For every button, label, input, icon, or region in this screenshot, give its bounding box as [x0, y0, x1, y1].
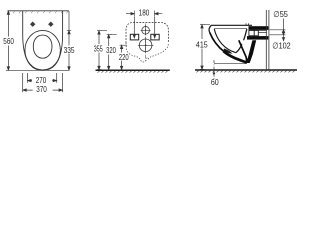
rear body dotted lower outline	[126, 43, 168, 62]
dim 270 extension lines	[28, 73, 57, 83]
wall double line	[266, 10, 269, 69]
dim 180 line	[126, 11, 162, 17]
dim 335 line	[67, 11, 71, 70]
svg-text:∅55: ∅55	[273, 9, 288, 19]
mounting hole rect right	[151, 34, 159, 40]
svg-text:335: 335	[64, 45, 75, 55]
dim 60 arrow	[213, 71, 216, 75]
dim 370 line with arrows	[23, 89, 63, 91]
dim 415 line	[200, 25, 210, 70]
outlet V notch white	[241, 40, 252, 56]
front edge extension line	[6, 69, 69, 71]
inlet pipe bar	[249, 26, 269, 30]
svg-text:180: 180	[139, 7, 150, 17]
ground hatched line right	[195, 69, 297, 71]
bowl inner cavity line	[214, 29, 236, 53]
mounting hole diamond right	[48, 22, 53, 27]
inlet thin double line	[258, 31, 267, 33]
svg-text:60: 60	[211, 77, 219, 87]
ground hatched line middle	[96, 69, 170, 71]
dia 55 leader	[270, 19, 286, 42]
svg-text:370: 370	[36, 84, 47, 94]
bowl cavity nub	[224, 49, 233, 54]
dim 270 line with arrows	[28, 79, 57, 81]
outlet left stroke black	[239, 40, 247, 62]
wall hatch ticks	[13, 11, 68, 13]
180 extension lines into holes	[133, 17, 156, 39]
dim 60 extension line	[214, 63, 247, 65]
outlet column black	[245, 40, 256, 63]
svg-text:320: 320	[106, 45, 116, 55]
outlet pipe bar	[247, 36, 268, 40]
svg-text:220: 220	[119, 52, 129, 62]
dim 220 line	[120, 45, 127, 69]
seat outer oval	[25, 30, 60, 70]
body outline top view	[23, 11, 63, 70]
bowl rear inner edge	[236, 29, 247, 53]
dim 355 line	[97, 31, 107, 70]
svg-text:560: 560	[3, 36, 14, 46]
bracket rect	[249, 30, 258, 35]
dim 60 axis dashed line	[213, 60, 215, 79]
mounting hole rect left	[130, 34, 138, 40]
rear body dashed outline	[126, 22, 168, 43]
center axis dash line	[145, 24, 147, 63]
bowl front edge	[209, 25, 211, 32]
wall line top	[7, 10, 69, 12]
seat hinge tick	[246, 23, 249, 25]
dim 560 line	[7, 11, 9, 70]
outlet circle with crosshair	[138, 38, 154, 54]
rim inner line	[214, 28, 247, 30]
bowl outer underside thick	[210, 32, 225, 52]
svg-text:415: 415	[196, 39, 208, 49]
bowl opening oval	[33, 35, 52, 58]
inlet circle with crosshair	[141, 25, 151, 35]
rim top line	[211, 24, 252, 26]
svg-text:∅102: ∅102	[272, 40, 291, 50]
dim 320 line	[107, 35, 117, 70]
svg-text:355: 355	[94, 44, 103, 54]
dim 370 extension lines	[23, 73, 63, 92]
mounting hole diamond left	[30, 22, 35, 27]
